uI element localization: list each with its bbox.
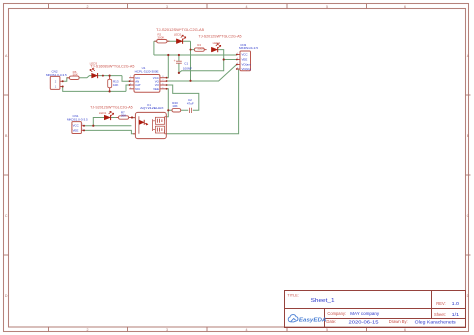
svg-text:10K: 10K (172, 104, 177, 108)
svg-text:5: 5 (326, 328, 328, 332)
svg-text:2020-06-15: 2020-06-15 (349, 319, 379, 324)
svg-text:MKDS1/4-3.5: MKDS1/4-3.5 (239, 46, 258, 50)
junction CN2 pin1 (62, 86, 64, 88)
EasyEDA logo (288, 315, 326, 324)
junction C1 bottom VEE (178, 72, 180, 74)
relay K1 (133, 103, 166, 138)
wire row1 R2-LED2 (154, 40, 191, 42)
svg-text:VCC: VCC (242, 53, 248, 57)
connector CN3 (237, 43, 259, 71)
LED LED3 (90, 68, 98, 78)
svg-text:VEE: VEE (242, 58, 248, 62)
frame row letters left (5, 54, 8, 298)
svg-text:47uF: 47uF (187, 101, 194, 105)
wire K1 output to CN3 pin4 (166, 69, 238, 134)
title block Company (327, 311, 379, 316)
svg-text:C: C (467, 214, 470, 218)
svg-text:Sheet:: Sheet: (434, 312, 446, 317)
wire CN2 pin1 bottom bus (63, 87, 126, 92)
svg-text:Company:: Company: (327, 311, 346, 316)
frame row letters right (467, 54, 470, 298)
svg-text:TJ-S1608SW*TGLC2G-A5: TJ-S1608SW*TGLC2G-A5 (90, 65, 134, 69)
title block outline (285, 291, 466, 328)
wire LED1 to R7 (111, 117, 118, 119)
frame column numbers top (87, 5, 407, 9)
svg-text:1.0: 1.0 (452, 301, 460, 307)
svg-text:2: 2 (87, 328, 89, 332)
svg-text:4: 4 (246, 328, 248, 332)
wire CN2 pin2 to R6 (63, 78, 70, 82)
junction VCC bus drop (167, 54, 169, 56)
svg-text:1/1: 1/1 (452, 312, 460, 317)
wire to U1 AN pin (122, 76, 129, 82)
resistor R13 (108, 76, 119, 92)
svg-text:Drawn By:: Drawn By: (389, 319, 408, 324)
svg-text:REV:: REV: (436, 301, 445, 306)
svg-text:5: 5 (326, 5, 328, 9)
svg-text:Date:: Date: (326, 319, 336, 324)
frame column ticks bottom (49, 327, 367, 332)
wire R6 to LED3 (79, 76, 91, 78)
connector CN1 (67, 114, 88, 134)
svg-text:C1: C1 (184, 62, 188, 66)
junction R7-K1 (131, 116, 133, 118)
svg-text:50K: 50K (73, 73, 78, 77)
svg-text:EasyEDA: EasyEDA (299, 317, 327, 323)
resistor R2 (155, 32, 170, 43)
svg-text:Sheet_1: Sheet_1 (311, 298, 335, 304)
svg-text:4: 4 (246, 5, 248, 9)
junction CN2 pin2 (62, 80, 64, 82)
svg-text:300K: 300K (157, 36, 164, 40)
wire left vertical to VCC bus (153, 41, 155, 55)
wire R20 row (168, 109, 188, 111)
resistor R7 (116, 111, 131, 120)
frame row ticks left (4, 95, 9, 255)
svg-text:Oleg Karachenets: Oleg Karachenets (415, 319, 457, 324)
svg-text:VO(am: VO(am (242, 63, 252, 67)
junction U1 pin AN (129, 80, 131, 82)
wire VEE drop to K1 (166, 89, 168, 117)
junction R20 row (167, 109, 169, 111)
junction CN3 pin3 (236, 64, 238, 66)
title block Sheet no (434, 312, 460, 317)
title block sheet name (311, 298, 335, 304)
junction U1 pin CAT (129, 84, 131, 86)
svg-text:TJ-S2012SW*TGLC2G-A5: TJ-S2012SW*TGLC2G-A5 (199, 34, 242, 38)
svg-text:D: D (467, 294, 470, 298)
svg-text:HCPL-3120-300E: HCPL-3120-300E (135, 69, 159, 73)
LED LED2 (176, 35, 185, 44)
junction R4 tap (190, 49, 192, 51)
junction CN3 pin1 (236, 54, 238, 56)
svg-text:D: D (5, 294, 8, 298)
svg-text:+: + (174, 59, 176, 63)
wire R7 to K1 pin1 (130, 117, 136, 119)
svg-text:MAY company: MAY company (350, 311, 380, 316)
junction U1 pin VO2 (166, 84, 168, 86)
junction CN3 pin4 (236, 68, 238, 70)
svg-text:6: 6 (404, 5, 406, 9)
svg-text:300K: 300K (197, 46, 204, 50)
junction C1 top (178, 54, 180, 56)
connector CN2 (46, 69, 67, 89)
title block Date (326, 319, 379, 324)
svg-text:LED2: LED2 (174, 32, 182, 36)
wire LED2 cathode vertical to VO (190, 41, 192, 81)
svg-text:N/C: N/C (135, 87, 140, 91)
svg-text:LED4: LED4 (213, 41, 221, 45)
svg-text:2: 2 (87, 5, 89, 9)
svg-text:100NF: 100NF (183, 66, 192, 70)
LED D3 label (90, 62, 135, 69)
title block TITLE label (287, 292, 299, 297)
wire row2 R4-LED4 branch (191, 50, 224, 60)
LED D4 label (199, 34, 242, 45)
junction U1 pin VCC (166, 77, 168, 79)
wire C1 top lead (178, 55, 180, 61)
junction VEE CN3 (223, 58, 225, 60)
junction CN1 pin VCC (83, 125, 85, 127)
svg-text:10K: 10K (113, 83, 118, 87)
wire LED3 cathode row (98, 75, 122, 77)
svg-text:TITLE:: TITLE: (287, 292, 299, 297)
junction CN3 pin2 (236, 59, 238, 61)
title block Drawn By (389, 319, 457, 324)
junction U1 pin VEE (166, 88, 168, 90)
wire VCC bus (154, 54, 237, 56)
frame column ticks top (49, 4, 367, 9)
opto-driver U1 (129, 66, 167, 92)
wire CN1 VEE to K1 pin2 (84, 130, 135, 133)
svg-text:C: C (5, 214, 8, 218)
junction U1 pin VO1 (166, 80, 168, 82)
svg-text:AQY212EHAX: AQY212EHAX (140, 106, 164, 110)
wire VEE line to CN3 pin2 (179, 60, 237, 73)
svg-text:TJ-S2012SW*TGLC2G-A5: TJ-S2012SW*TGLC2G-A5 (90, 106, 133, 110)
svg-text:3: 3 (166, 328, 168, 332)
junction node LED1 branch (92, 125, 94, 127)
resistor R4 (194, 43, 206, 51)
wire VO line and diagonal to CN3 pin3 (167, 65, 237, 82)
frame column numbers bottom (87, 328, 407, 332)
resistor R20 (172, 101, 181, 112)
junction CN1 pin VEE (83, 129, 85, 131)
frame row ticks right (465, 95, 470, 255)
svg-text:VCC: VCC (73, 124, 79, 128)
title block REV (436, 301, 459, 307)
junction R13 bottom (109, 90, 111, 92)
wire C1 bottom lead to VEE line (178, 63, 180, 73)
capacitor C2 (187, 98, 194, 113)
svg-text:VO(trig: VO(trig (242, 67, 252, 71)
svg-text:6: 6 (404, 328, 406, 332)
svg-text:LED1: LED1 (99, 111, 107, 115)
wire VO2 to snubber (167, 85, 199, 110)
LED D2 label (156, 28, 204, 36)
LED D1 label (90, 106, 133, 116)
svg-text:3: 3 (166, 5, 168, 9)
wire CN1 VCC to LED1 (84, 118, 131, 126)
resistor R6 (67, 70, 80, 80)
LED LED4 (211, 44, 220, 53)
wire VCC drop to U1 pin8 (167, 55, 169, 78)
svg-text:VEE: VEE (73, 129, 79, 133)
svg-text:VEE: VEE (153, 87, 159, 91)
junction VO node (189, 80, 191, 82)
capacitor C1 (174, 59, 192, 70)
LED LED1 (104, 112, 113, 121)
junction R13 top (109, 75, 111, 77)
svg-text:20K: 20K (121, 114, 126, 118)
junction LED3 row (102, 75, 104, 77)
wire bus to U1 CAT pin (126, 85, 129, 91)
